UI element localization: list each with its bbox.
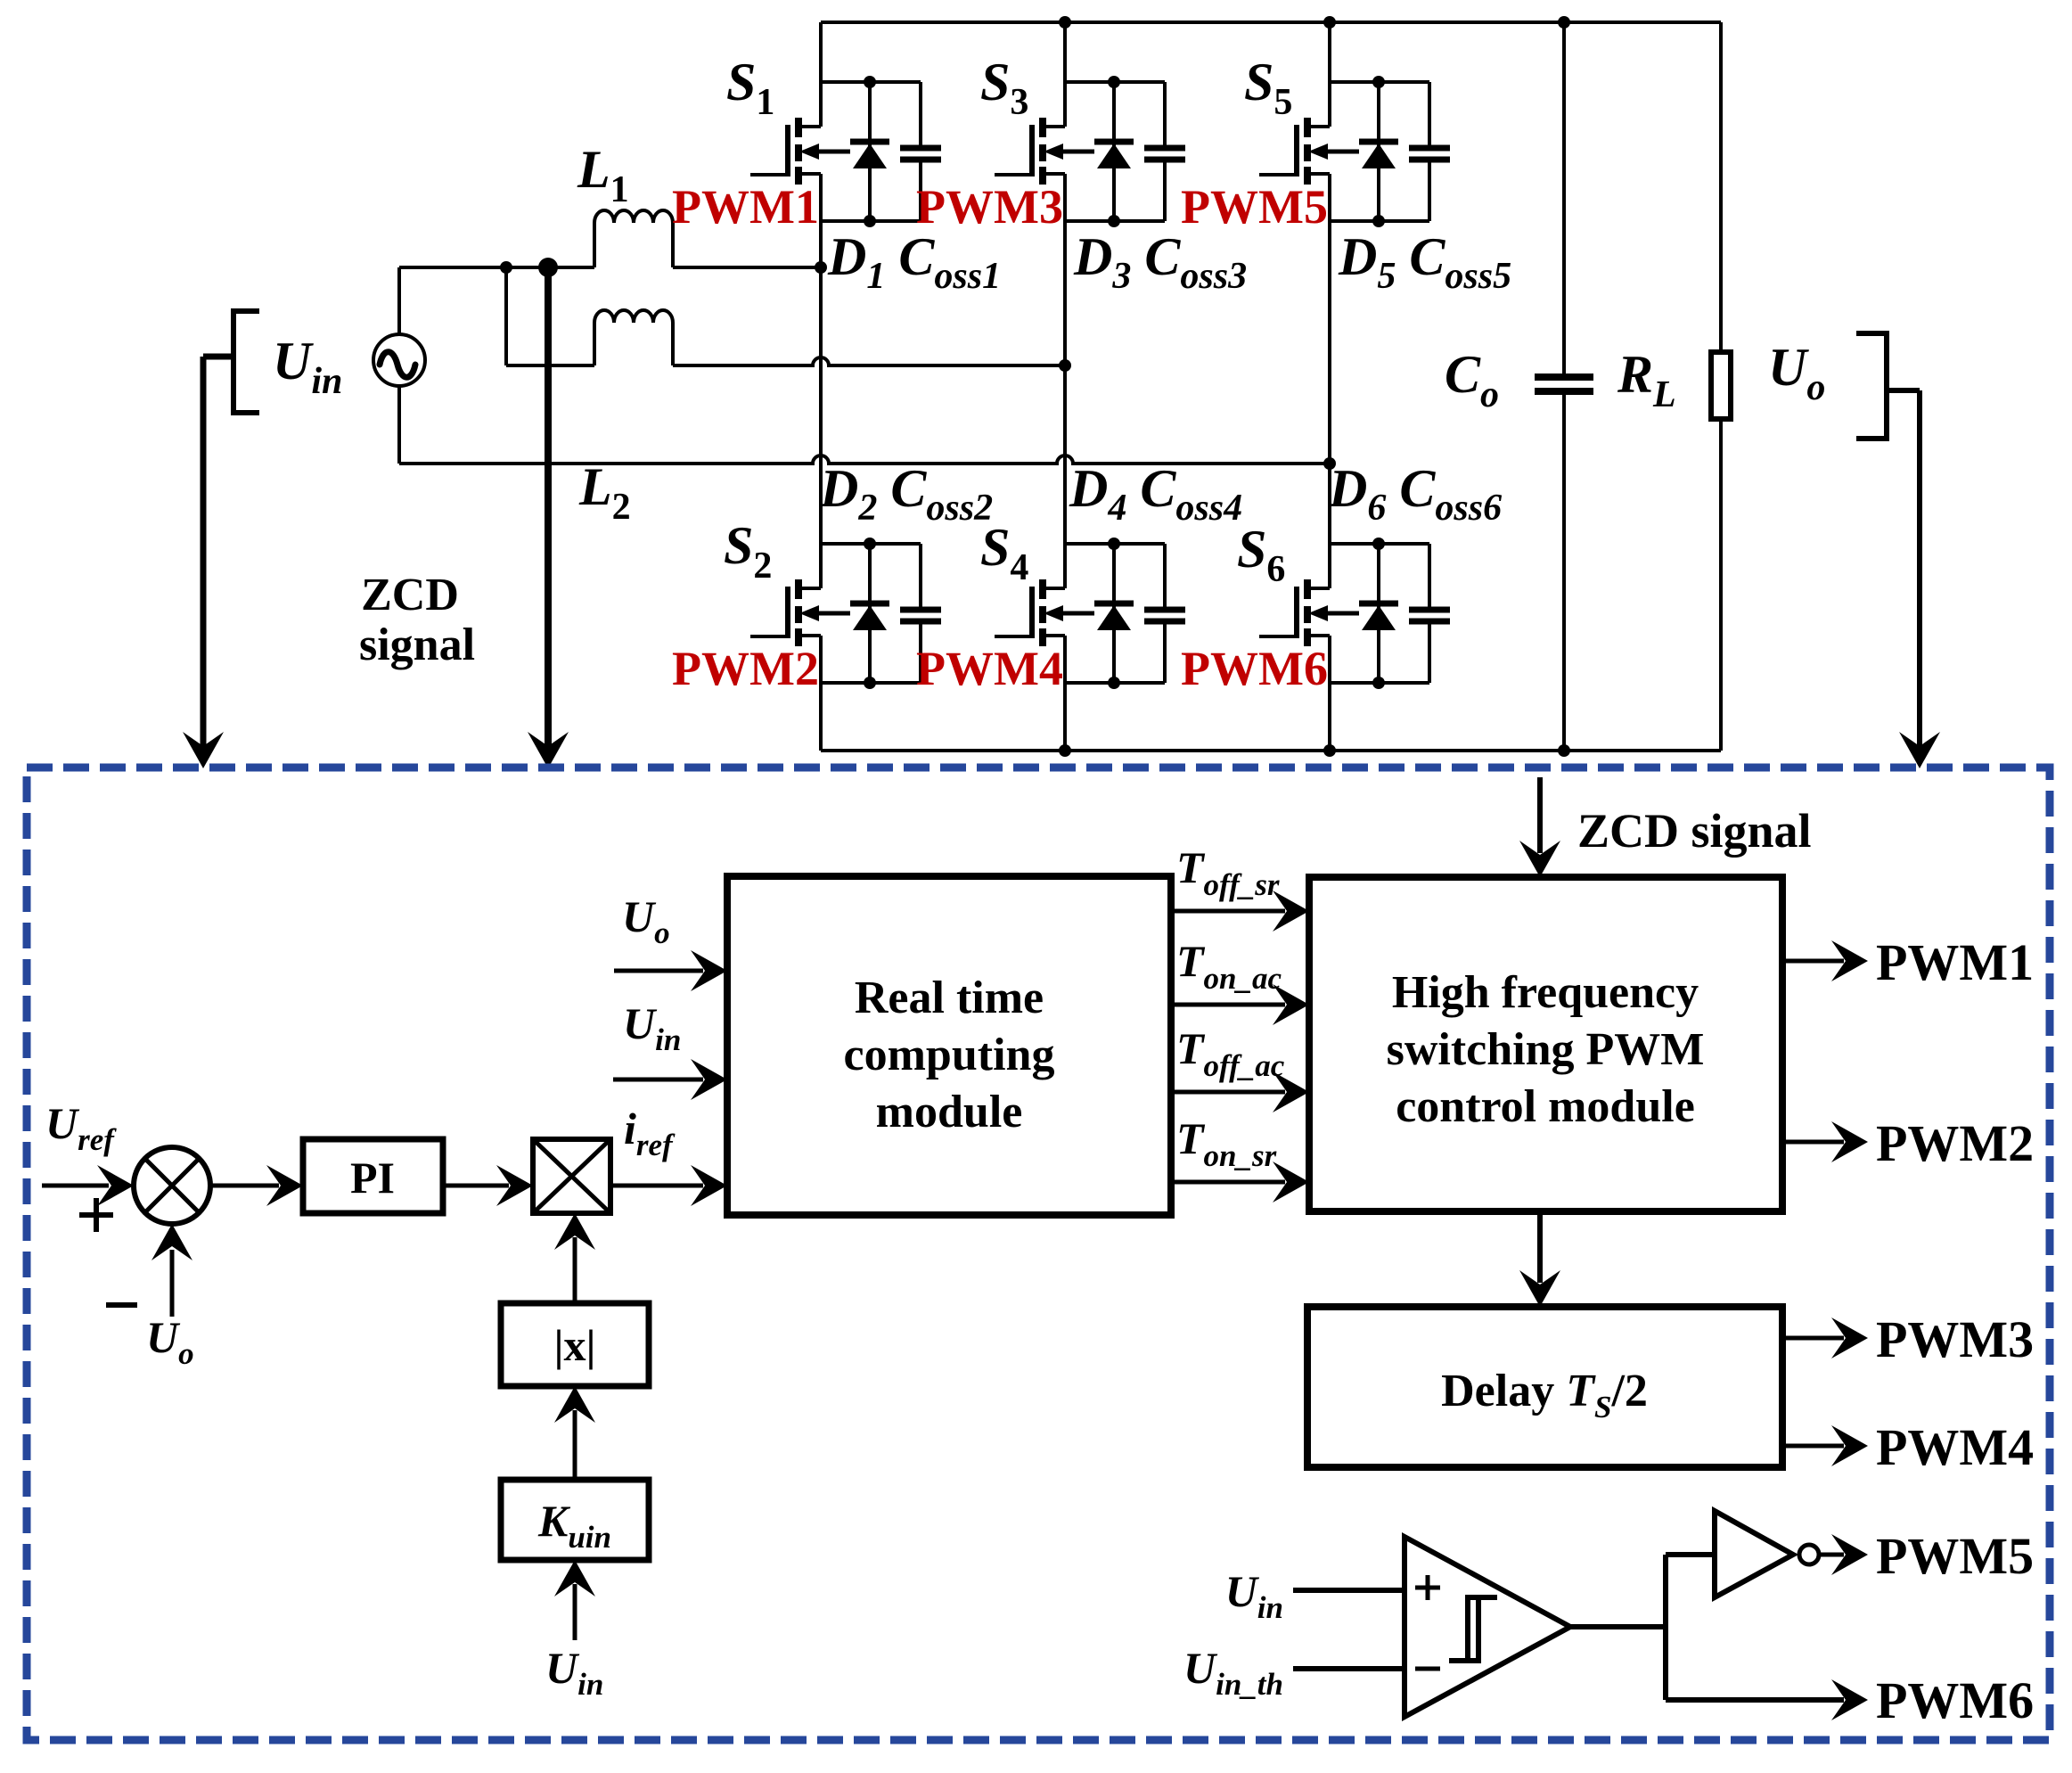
svg-text:PWM4: PWM4 — [1876, 1418, 2034, 1476]
svg-text:PWM1: PWM1 — [672, 180, 819, 234]
svg-text:PWM3: PWM3 — [1876, 1310, 2034, 1368]
svg-text:PI: PI — [350, 1153, 395, 1203]
svg-text:PWM2: PWM2 — [1876, 1114, 2034, 1172]
svg-text:Real time: Real time — [855, 973, 1044, 1023]
svg-text:PWM5: PWM5 — [1181, 180, 1328, 234]
svg-text:PWM6: PWM6 — [1181, 642, 1328, 695]
svg-text:control module: control module — [1396, 1081, 1695, 1132]
svg-text:PWM2: PWM2 — [672, 642, 819, 695]
svg-text:ZCD signal: ZCD signal — [1577, 804, 1812, 858]
svg-text:High frequency: High frequency — [1392, 967, 1699, 1018]
svg-text:|x|: |x| — [553, 1320, 595, 1370]
svg-text:module: module — [876, 1087, 1023, 1137]
svg-text:ZCD: ZCD — [361, 570, 459, 620]
svg-text:PWM3: PWM3 — [916, 180, 1063, 234]
svg-text:signal: signal — [359, 620, 475, 670]
svg-text:PWM6: PWM6 — [1876, 1671, 2034, 1729]
svg-text:PWM1: PWM1 — [1876, 933, 2034, 991]
svg-text:PWM5: PWM5 — [1876, 1527, 2034, 1585]
svg-text:switching PWM: switching PWM — [1387, 1024, 1705, 1075]
svg-text:PWM4: PWM4 — [916, 642, 1063, 695]
svg-text:computing: computing — [844, 1030, 1055, 1080]
svg-text:Delay TS/2: Delay TS/2 — [1441, 1366, 1648, 1424]
